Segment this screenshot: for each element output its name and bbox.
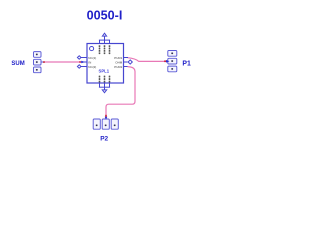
svg-text:PUR2: PUR2 bbox=[114, 65, 122, 69]
svg-text:PUR1: PUR1 bbox=[114, 56, 122, 60]
svg-text:SUM: SUM bbox=[11, 61, 24, 67]
svg-text:NC(1): NC(1) bbox=[88, 56, 96, 60]
svg-text:SPL1: SPL1 bbox=[99, 68, 110, 73]
svg-text:OHM: OHM bbox=[115, 60, 123, 64]
svg-text:IN: IN bbox=[88, 60, 91, 64]
svg-text:P2: P2 bbox=[100, 136, 108, 143]
svg-text:NC(2): NC(2) bbox=[88, 65, 96, 69]
svg-text:P1: P1 bbox=[182, 61, 191, 68]
svg-text:0050-I: 0050-I bbox=[87, 8, 123, 22]
